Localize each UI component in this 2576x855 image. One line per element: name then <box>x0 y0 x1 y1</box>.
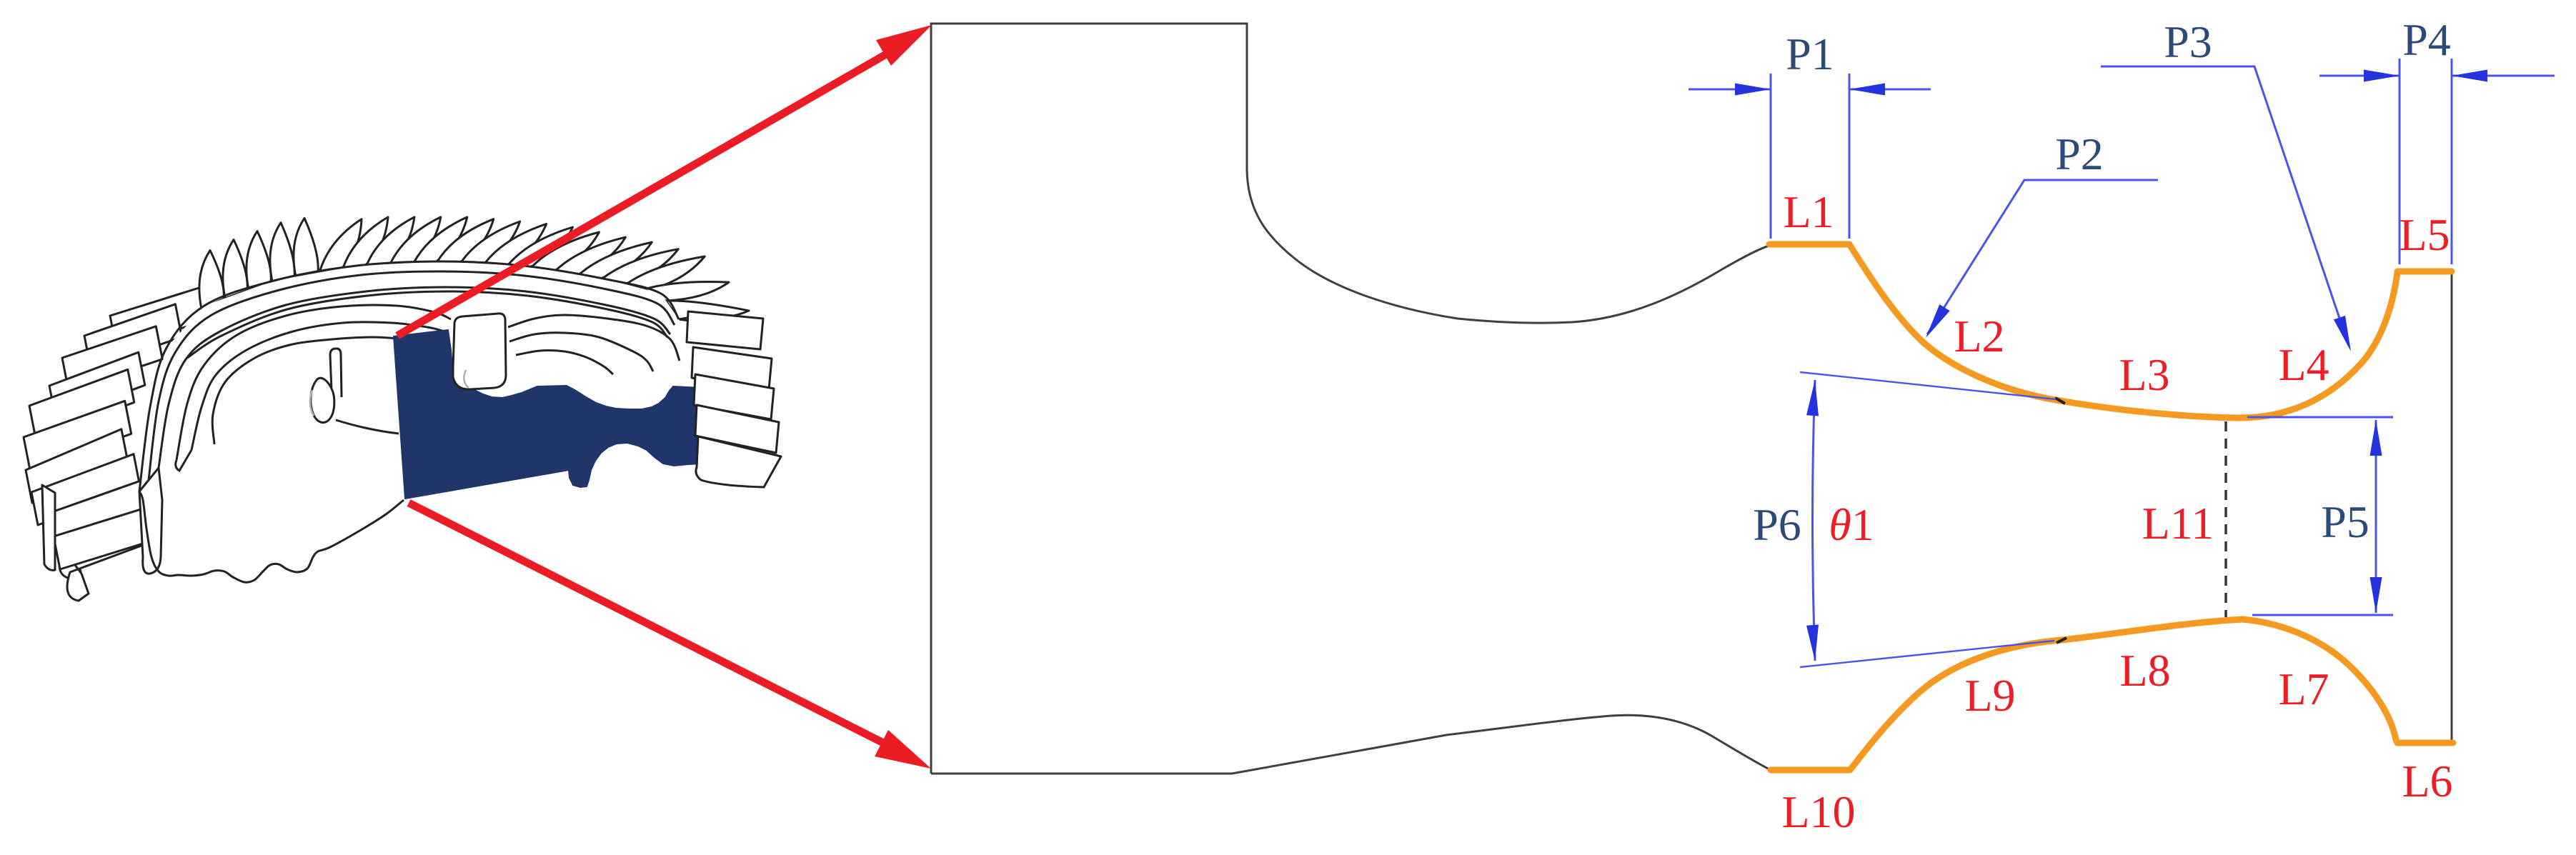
sectioned cross-section (navy) <box>394 330 720 499</box>
hub bore ghost edge <box>310 390 314 416</box>
svg-text:θ1: θ1 <box>1829 499 1874 550</box>
svg-text:L10: L10 <box>1781 786 1855 837</box>
theta1 tangent line lower <box>1800 641 2054 667</box>
right lobe arc 3 <box>516 351 613 374</box>
rim inner arc <box>159 287 670 468</box>
svg-text:L11: L11 <box>2142 498 2214 549</box>
segment L6 <box>2397 740 2453 746</box>
dimension P2 leader <box>1927 180 2158 334</box>
bore cut strip <box>330 349 342 397</box>
red callout arrow bottom <box>409 503 887 745</box>
rim inner arc B <box>187 291 667 358</box>
far-side bore ghost <box>464 370 469 388</box>
svg-text:P6: P6 <box>1753 499 1801 550</box>
svg-text:L8: L8 <box>2119 645 2170 696</box>
wheel body fill <box>139 261 715 582</box>
node L2-L3 tick <box>2055 398 2065 404</box>
bowl floor arc <box>336 420 399 434</box>
dimension P6 angle arc <box>1813 380 1816 661</box>
svg-text:P1: P1 <box>1786 29 1834 79</box>
svg-text:L7: L7 <box>2278 664 2329 714</box>
svg-text:P4: P4 <box>2402 14 2451 65</box>
node L8-L9 tick <box>2057 638 2067 643</box>
svg-text:L5: L5 <box>2399 209 2450 260</box>
right lobe arc 2 <box>509 333 653 371</box>
left thin edge blade <box>42 485 55 570</box>
svg-text:L4: L4 <box>2278 339 2329 390</box>
dimension P5 <box>2247 417 2393 615</box>
bowl arc 3 <box>212 337 399 444</box>
svg-text:L6: L6 <box>2402 756 2452 806</box>
profile bottom edge <box>931 715 1771 774</box>
svg-text:L9: L9 <box>1964 670 2015 721</box>
dimension P3 leader <box>2101 66 2349 346</box>
bowl arc 2 <box>192 322 444 450</box>
rim left end cap foot <box>139 468 162 574</box>
segment L1-L2 <box>1769 244 2060 401</box>
segment L3-L4-L5 <box>2060 271 2452 418</box>
dashed throat line L11 <box>2224 421 2227 617</box>
dimension P4 <box>2319 59 2555 264</box>
svg-text:L1: L1 <box>1783 186 1834 237</box>
svg-text:P5: P5 <box>2321 496 2369 547</box>
hub bore eye <box>311 378 334 422</box>
profile outline <box>931 24 1769 774</box>
segment L8 <box>2062 619 2242 640</box>
segment L7 <box>2242 619 2397 743</box>
svg-text:P3: P3 <box>2164 16 2212 67</box>
profile right edge <box>2451 271 2453 741</box>
segment L10-L9 <box>1771 640 2062 770</box>
bowl left cap <box>176 450 192 471</box>
far-side groove face box <box>453 314 506 389</box>
red callout arrow top <box>397 54 886 336</box>
svg-text:P2: P2 <box>2055 129 2104 179</box>
rim mid arc <box>149 271 675 480</box>
svg-text:L3: L3 <box>2119 349 2169 400</box>
turbine wheel left slat blades <box>24 287 209 601</box>
rim outer arc <box>139 261 679 491</box>
turbine wheel top sail blades <box>199 217 755 323</box>
svg-text:L2: L2 <box>1954 311 2004 361</box>
theta1 tangent line upper <box>1800 372 2056 399</box>
right slat stack <box>687 311 781 487</box>
dimension P1 <box>1689 74 1931 239</box>
bowl arc 1 <box>176 305 451 460</box>
body bottom outline <box>139 491 404 582</box>
right lobe arc 1 <box>508 315 680 361</box>
